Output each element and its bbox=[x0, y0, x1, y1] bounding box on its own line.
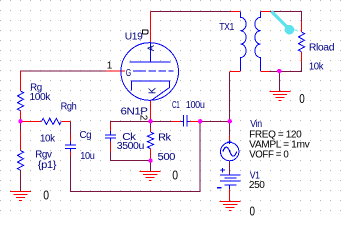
svg-text:0: 0 bbox=[250, 204, 256, 216]
svg-text:Rgv: Rgv bbox=[35, 150, 52, 161]
svg-text:Cg: Cg bbox=[80, 130, 92, 141]
svg-text:Vin: Vin bbox=[250, 119, 261, 130]
svg-text:250: 250 bbox=[249, 180, 265, 191]
svg-text:VOFF = 0: VOFF = 0 bbox=[249, 149, 289, 160]
svg-text:2: 2 bbox=[138, 115, 149, 121]
svg-text:Rload: Rload bbox=[309, 43, 334, 54]
svg-text:0: 0 bbox=[43, 188, 49, 203]
svg-text:U19: U19 bbox=[125, 31, 143, 42]
svg-text:{p1}: {p1} bbox=[38, 160, 57, 171]
svg-text:K: K bbox=[147, 87, 158, 94]
svg-text:Rk: Rk bbox=[158, 133, 172, 144]
svg-text:3500u: 3500u bbox=[117, 141, 144, 152]
svg-text:100k: 100k bbox=[30, 92, 52, 103]
svg-text:10k: 10k bbox=[309, 61, 325, 72]
svg-text:0: 0 bbox=[172, 168, 178, 183]
svg-text:TX1: TX1 bbox=[219, 22, 235, 33]
svg-text:C1: C1 bbox=[172, 100, 180, 111]
svg-text:A: A bbox=[146, 45, 156, 51]
svg-text:G: G bbox=[126, 67, 131, 79]
svg-text:0: 0 bbox=[299, 91, 305, 106]
svg-text:10k: 10k bbox=[40, 133, 56, 144]
svg-text:Rgh: Rgh bbox=[61, 102, 77, 113]
svg-text:1: 1 bbox=[107, 61, 113, 72]
svg-text:10u: 10u bbox=[80, 151, 94, 162]
svg-text:500: 500 bbox=[158, 152, 176, 163]
svg-text:100u: 100u bbox=[186, 100, 205, 111]
